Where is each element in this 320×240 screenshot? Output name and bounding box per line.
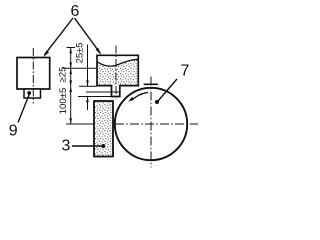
abrasive material stipple bbox=[98, 59, 138, 85]
small base box (item 9) bbox=[24, 89, 41, 98]
rotation direction arrow bbox=[131, 92, 148, 100]
wheel horizontal centerline bbox=[115, 123, 198, 125]
worn concave top surface bbox=[98, 59, 138, 66]
leader for 9 bbox=[18, 95, 29, 123]
grinding wheel 7 (large circle) bbox=[115, 88, 187, 160]
leader 6 left arm bbox=[45, 18, 74, 55]
extension line y=47.5 bbox=[67, 47, 76, 49]
lower felt pad (item 3) bbox=[94, 101, 113, 157]
arrow down at 68.3 bbox=[69, 63, 72, 69]
extension line y=86.3 bbox=[79, 85, 97, 87]
dimension line x=87.5 lower bbox=[87, 97, 89, 111]
extension line y=68.3 bbox=[63, 67, 97, 69]
arrow up at 47.5 bbox=[69, 48, 72, 54]
svg-text:100±5: 100±5 bbox=[58, 88, 69, 115]
svg-text:7: 7 bbox=[181, 63, 190, 80]
extension line y=124 bbox=[66, 123, 94, 125]
arrow up at 86.3 (below) bbox=[69, 86, 72, 92]
dimension line x=87.5 upper bbox=[87, 45, 89, 87]
svg-text:3: 3 bbox=[62, 138, 71, 155]
arrow down at 86.3 on x=87.5 bbox=[86, 81, 89, 87]
left box centerline bbox=[32, 48, 34, 104]
left box (item 6a) bbox=[17, 58, 50, 90]
block centerline bbox=[115, 46, 117, 101]
svg-text:6: 6 bbox=[71, 3, 80, 20]
bar above wheel top bbox=[144, 83, 158, 85]
abrasive block holder (item 6b) outline bbox=[97, 55, 138, 96]
leader for 3 bbox=[72, 145, 103, 147]
extension line y=92 (stem shoulder) bbox=[86, 91, 120, 93]
svg-text:25±5: 25±5 bbox=[74, 43, 84, 64]
arrow down at 86.3 bbox=[69, 81, 72, 87]
leader for 7 bbox=[158, 79, 178, 102]
arrow up at 96.5 on x=87.5 bbox=[86, 97, 89, 103]
wheel vertical centerline bbox=[150, 77, 152, 168]
leader 6 right arm bbox=[75, 18, 101, 53]
extension line y=96.5 bbox=[78, 96, 112, 98]
dimension chain line x=70.7 bbox=[70, 48, 72, 125]
arrow up at 68.3 (below) bbox=[69, 68, 72, 74]
svg-text:≥25: ≥25 bbox=[58, 67, 69, 83]
svg-text:9: 9 bbox=[9, 122, 18, 139]
arrow down at 124 bbox=[69, 118, 72, 124]
